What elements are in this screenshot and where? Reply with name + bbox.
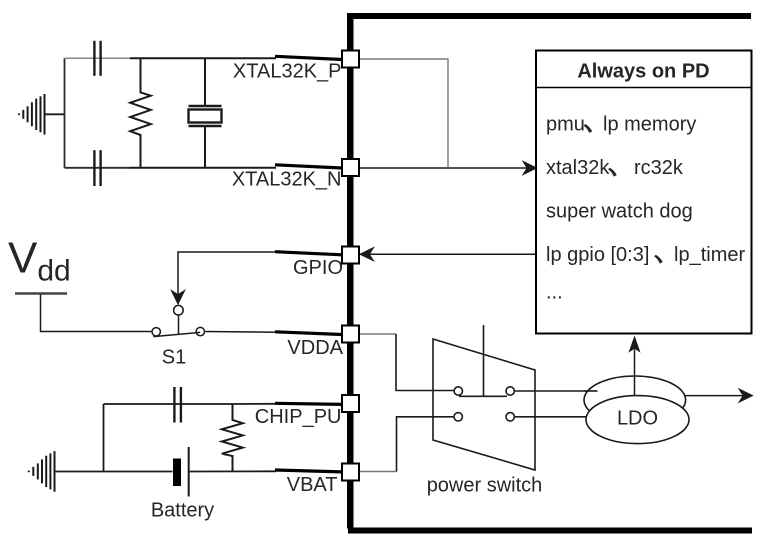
wire XTAL32K_N to Always-on PD: [360, 167, 528, 169]
svg-text:CHIP_PU: CHIP_PU: [255, 406, 342, 428]
power switch closed lever: [459, 395, 507, 397]
svg-text:pmu: pmu: [546, 113, 585, 135]
wire switch to LDO (bottom): [514, 416, 600, 418]
wire battery to pin VBAT: [190, 470, 276, 472]
Always on PD box: [536, 51, 752, 334]
svg-text:GPIO: GPIO: [293, 257, 343, 279]
wire CHIP_PU rail: [104, 403, 233, 405]
wire stub visible on LDO back ellipse: [585, 390, 598, 392]
capacitor C2 (bottom): [94, 150, 100, 186]
pin XTAL32K_N: [342, 159, 359, 176]
power switch contact bottom-left: [454, 413, 462, 421]
wire Always-on PD to GPIO: [370, 253, 536, 255]
arrow down to S1 common: [171, 291, 184, 305]
switch S1 lever: [178, 315, 180, 334]
capacitor C1 (top): [94, 41, 100, 76]
battery BT1 positive plate: [188, 447, 190, 497]
svg-text:lp_timer: lp_timer: [674, 244, 745, 266]
switch S1 common contact: [174, 305, 184, 315]
svg-text:XTAL32K_N: XTAL32K_N: [232, 169, 342, 191]
pin stub CHIP_PU: [275, 403, 342, 404]
pin CHIP_PU: [342, 395, 359, 412]
arrow into pin GPIO: [360, 248, 374, 261]
ground (battery circuit): [29, 451, 55, 492]
wire VDDA to power switch: [360, 333, 397, 335]
power switch parallelogram: [433, 339, 535, 470]
arrow LDO to Always-on PD: [634, 349, 636, 396]
wire top rail (gray segment through C1): [65, 57, 131, 59]
LDO front ellipse: [586, 396, 689, 444]
pin XTAL32K_P: [342, 51, 359, 68]
wire C3 to pin CHIP_PU: [233, 403, 277, 405]
wire bottom rail: [65, 167, 131, 169]
switch S1 left contact: [152, 328, 160, 336]
wire junction up to CHIP_PU rail: [103, 404, 105, 472]
chip boundary left vertical bar: [347, 13, 354, 529]
svg-text:LDO: LDO: [617, 408, 658, 430]
svg-text:rc32k: rc32k: [634, 157, 684, 179]
wire VBAT to power switch: [360, 471, 397, 473]
Always on PD title separator: [536, 87, 752, 89]
svg-text:lp memory: lp memory: [603, 113, 696, 135]
wire XTAL32K_P to Always-on PD: [360, 59, 449, 167]
wire Vdd to switch S1: [41, 295, 152, 332]
resistor R2: [222, 404, 243, 472]
svg-text:XTAL32K_P: XTAL32K_P: [233, 61, 342, 83]
arrow LDO output: [686, 395, 744, 397]
svg-text:lp gpio [0:3]: lp gpio [0:3]: [546, 244, 649, 266]
LDO back ellipse: [584, 376, 686, 424]
svg-text:xtal32k: xtal32k: [546, 157, 610, 179]
wire ground stub to crystal loop: [45, 113, 65, 115]
svg-text:S1: S1: [162, 347, 186, 369]
svg-text:Always on PD: Always on PD: [577, 61, 709, 83]
svg-text:VBAT: VBAT: [287, 474, 338, 496]
crystal Y1: [189, 58, 222, 168]
wire switch to LDO (top): [514, 390, 600, 392]
svg-text:super watch dog: super watch dog: [546, 201, 693, 223]
pin VBAT: [342, 464, 359, 481]
wire GPIO control to S1: [178, 252, 276, 294]
wire top rail C1 to pin XTAL32K_P: [130, 57, 276, 59]
power switch contact bottom-right: [506, 413, 514, 421]
chip boundary bottom bar: [348, 528, 752, 534]
capacitor C3: [174, 387, 181, 423]
ground (crystal circuit): [19, 94, 45, 135]
svg-text:...: ...: [546, 282, 563, 304]
battery BT1 negative plate: [173, 459, 181, 487]
pin stub XTAL32K_P: [275, 56, 342, 59]
wire bottom rail C2 to pin XTAL32K_N: [130, 167, 276, 169]
svg-text:Battery: Battery: [151, 500, 214, 522]
pin stub VDDA: [275, 332, 342, 335]
pin stub XTAL32K_N: [275, 165, 342, 168]
wire S1 to VDDA: [205, 331, 276, 334]
power switch contact top-left: [454, 387, 462, 395]
wire left vertical of crystal loop: [64, 58, 66, 168]
pin stub GPIO: [275, 252, 342, 255]
resistor R1: [130, 58, 151, 168]
power switch contact top-right: [506, 387, 514, 395]
pin VDDA: [342, 326, 359, 343]
power switch control line: [483, 325, 485, 396]
Vdd rail bar: [15, 292, 67, 294]
pin stub VBAT: [275, 470, 342, 472]
svg-text:VDDA: VDDA: [287, 337, 343, 359]
switch S1 right contact: [196, 327, 204, 335]
svg-text:power switch: power switch: [427, 475, 543, 497]
chip boundary top bar: [347, 13, 751, 19]
arrow into Always-on PD (xtal32k row): [523, 161, 537, 174]
wire ground to battery: [56, 471, 173, 473]
pin GPIO: [342, 247, 359, 264]
